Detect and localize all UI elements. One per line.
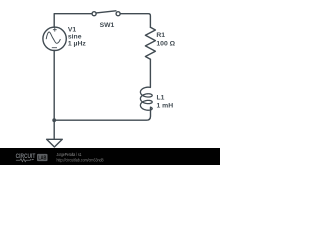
svg-text:R1: R1 [156,32,165,39]
svg-text:SW1: SW1 [100,22,115,29]
svg-text:sine: sine [68,33,82,40]
inductor L1 coil [140,87,152,110]
logo wire-resistor motif [16,159,34,162]
svg-text:100 Ω: 100 Ω [156,40,175,47]
ground symbol [47,139,63,147]
switch SW1 lever [96,11,116,13]
logo LAB badge [37,154,48,161]
V1 plus sign [52,28,57,48]
resistor R1 zigzag [145,27,155,59]
svg-text:LAB: LAB [38,156,47,162]
junction dot [52,118,56,122]
switch SW1 terminal left [92,12,96,16]
wire: switch right terminal to top-right corner down to R1 [121,14,151,28]
voltage source V1 circle [43,27,66,50]
svg-text:1 mH: 1 mH [157,102,174,109]
svg-text:L1: L1 [157,95,165,102]
V1 sine waveform [46,32,60,43]
V1 minus sign [52,47,57,49]
svg-text:V1: V1 [68,26,77,33]
switch SW1 terminal right [116,12,120,16]
wire: V1 top to switch left terminal [54,14,91,28]
footer bar [0,148,220,165]
wire: V1 bottom to junction to ground [53,51,55,140]
svg-text:1 µHz: 1 µHz [68,41,86,48]
wire: R1 to L1 [149,59,151,87]
wire: L1 bottom lead and bottom wire to junction [54,107,150,120]
svg-text:http://circuitlab.com/cm63nd8: http://circuitlab.com/cm63nd8 [57,157,105,162]
